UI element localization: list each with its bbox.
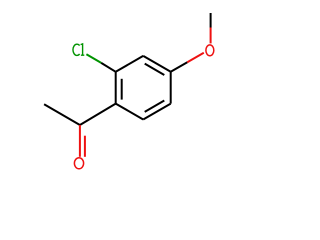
aromatic inner line (V4=V5 double) <box>145 101 165 112</box>
benzene ring bond V6-V1 <box>115 72 117 104</box>
C4-O(methoxy) bond red half <box>187 53 204 63</box>
O-CH3 methyl bond red half <box>210 28 212 44</box>
benzene ring bond V5-V6 <box>116 104 144 120</box>
benzene ring bond V1-V2 <box>116 56 144 72</box>
benzene ring bond V4-V5 <box>143 104 171 120</box>
C7=O main red line <box>79 125 81 157</box>
C7=O second red line <box>84 136 86 157</box>
aromatic inner line (V2=V3 double) <box>145 64 165 75</box>
O-CH3 methyl bond black half <box>210 13 212 28</box>
Cl-C1 bond green half <box>86 54 101 63</box>
O(aldehyde/ketone) label <box>74 158 83 169</box>
C4-O(methoxy) bond black half <box>171 62 188 72</box>
Cl-C1 bond black half <box>101 63 116 72</box>
acetyl C7-C1(ring V6) bond <box>80 104 116 125</box>
acetyl CH3-C7 bond <box>44 104 80 125</box>
Cl label <box>73 44 84 55</box>
O(methoxy) label <box>206 45 214 56</box>
benzene ring bond V2-V3 <box>143 56 171 72</box>
benzene ring bond V3-V4 <box>170 72 172 104</box>
aromatic inner line (V6=V1 double) <box>121 79 123 100</box>
